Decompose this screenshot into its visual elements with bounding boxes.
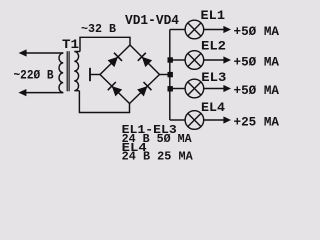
svg-text:+5Ø МА: +5Ø МА: [234, 24, 280, 39]
wire branch EL4: [170, 119, 185, 121]
bridge diamond wires: [100, 45, 160, 104]
transformer T1 secondary winding: [74, 52, 80, 91]
svg-text:VD1-VD4: VD1-VD4: [125, 14, 179, 29]
svg-text:+5Ø МА: +5Ø МА: [234, 83, 280, 98]
node junction dot EL3: [168, 86, 173, 91]
wire 220V top line: [24, 52, 63, 54]
wire secondary top lead to ~32V rail: [80, 37, 130, 51]
wire bridge plus output to bus: [160, 74, 170, 76]
lamp EL1: [185, 20, 204, 39]
arrow output EL1: [223, 26, 231, 33]
arrow 220V top: [19, 49, 27, 56]
wire EL3 to output: [204, 88, 224, 90]
svg-text:EL4: EL4: [201, 101, 226, 115]
svg-text:Т1: Т1: [62, 37, 79, 52]
wire branch EL3: [170, 88, 185, 90]
wire EL2 to output: [204, 59, 224, 61]
arrow output EL2: [223, 56, 231, 63]
diode VD1 (top-left): [108, 57, 118, 67]
svg-text:+25 МА: +25 МА: [234, 115, 280, 130]
wire secondary bottom lead to bridge bottom: [79, 91, 129, 113]
arrow output EL3: [223, 85, 231, 92]
lamp EL3: [185, 79, 204, 98]
diode VD2 (top-right): [142, 57, 152, 67]
wire branch EL2: [170, 59, 185, 61]
wire EL1 to output: [204, 29, 224, 31]
wire EL4 to output: [204, 119, 224, 121]
svg-text:~32 В: ~32 В: [81, 22, 116, 36]
wire 220V bottom line: [24, 92, 63, 94]
wire plus bus vertical: [169, 30, 171, 121]
svg-text:+5Ø МА: +5Ø МА: [234, 55, 280, 70]
transformer T1 core: [66, 51, 68, 91]
lamp EL2: [185, 51, 204, 70]
diode VD3 (bottom-left): [112, 86, 122, 96]
arrow output EL4: [223, 116, 231, 123]
wire branch EL1: [170, 29, 185, 31]
node minus stub with terminal bar: [91, 74, 101, 76]
node junction dot bridge output: [168, 72, 173, 77]
diode VD4 (bottom-right): [137, 86, 147, 96]
node junction dot EL2: [168, 57, 173, 62]
svg-text:~22Ø В: ~22Ø В: [14, 67, 54, 82]
transformer T1 primary winding: [59, 53, 63, 93]
lamp EL4: [185, 111, 204, 130]
svg-text:24 В 25 МА: 24 В 25 МА: [122, 151, 193, 164]
svg-text:EL1: EL1: [201, 9, 226, 23]
svg-text:EL2: EL2: [201, 40, 226, 54]
arrow 220V bottom: [18, 89, 26, 96]
svg-text:EL3: EL3: [201, 71, 226, 85]
